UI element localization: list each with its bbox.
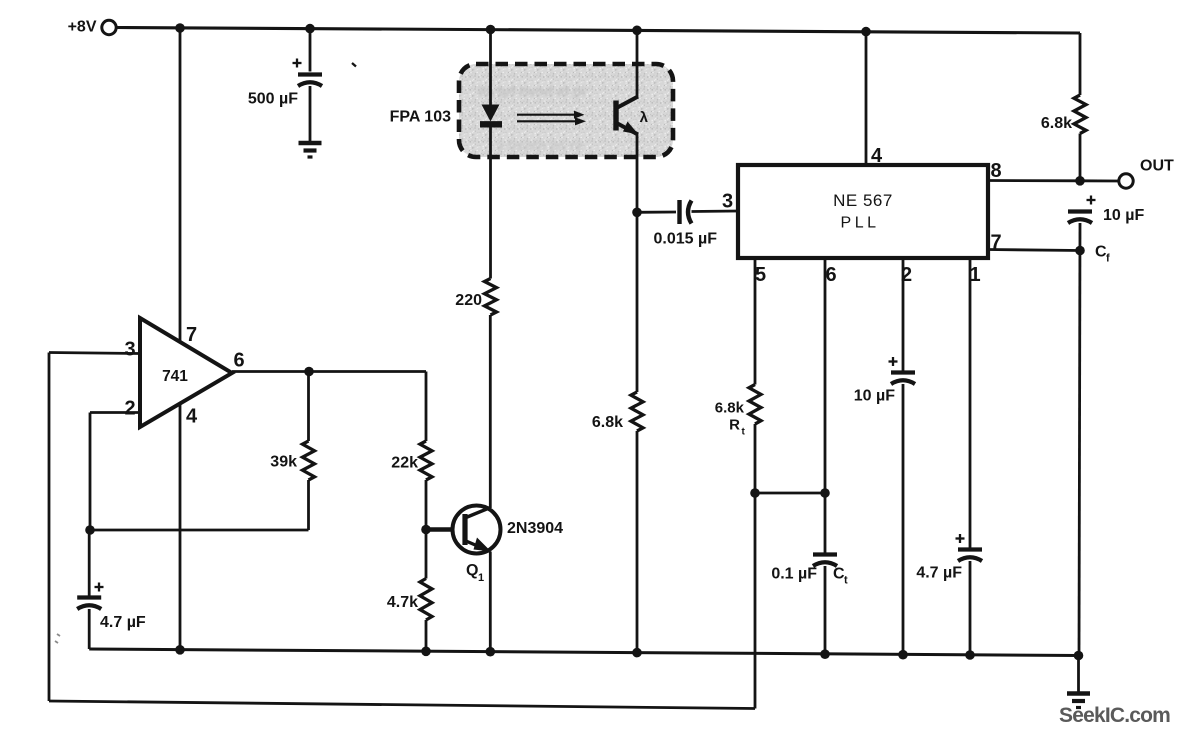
capacitor 500uF plus sign — [293, 62, 302, 64]
transistor Q1 emitter diagonal — [466, 541, 490, 552]
wire pin3 feedback column — [48, 353, 51, 702]
wire phototransistor collector up — [636, 30, 639, 97]
svg-text:PLL: PLL — [841, 215, 880, 232]
svg-text:t: t — [844, 575, 848, 587]
svg-text:0.015 µF: 0.015 µF — [654, 231, 718, 248]
wire NE567 pin 2 down — [902, 258, 905, 372]
wire 4.7uF pin1 to bottom rail — [969, 561, 972, 655]
op-amp U 741 triangle — [140, 318, 232, 427]
wire Ct to bottom rail — [824, 566, 827, 654]
svg-text:10 µF: 10 µF — [854, 388, 895, 405]
svg-text:2N3904: 2N3904 — [507, 520, 563, 537]
node 4.7uF / bottom rail — [965, 650, 975, 660]
wire Q1 base — [426, 527, 462, 532]
svg-text:lla tpf bsnd af pl: lla tpf bsnd af pl — [478, 83, 585, 99]
wire Q1 emitter down — [489, 552, 492, 652]
node 22k / 4.7k / Q1 base — [421, 525, 431, 535]
optocoupler phototransistor collector diagonal — [618, 97, 639, 108]
optocoupler phototransistor emitter arrow — [623, 122, 639, 135]
wire above 220 — [489, 213, 492, 279]
wire op-amp pin 2 input — [90, 411, 140, 414]
wire 22k to base node — [425, 480, 428, 530]
wire top +8V rail — [117, 28, 1081, 34]
svg-text:7: 7 — [186, 324, 197, 346]
svg-text:4: 4 — [871, 145, 883, 167]
transistor Q1 emitter arrow — [474, 538, 492, 552]
wire bottom feedback line — [49, 701, 755, 709]
svg-text:3: 3 — [124, 339, 135, 361]
wire 4.7k top — [425, 530, 428, 579]
capacitor C 10uF (Cf) plus — [1087, 199, 1096, 201]
svg-text:39k: 39k — [270, 454, 297, 471]
wire 4.7uF op-amp top — [88, 530, 91, 597]
resistor R 220 — [485, 279, 497, 316]
svg-text:0.1 µF: 0.1 µF — [771, 566, 817, 583]
capacitor C 0.015uF left plate — [677, 200, 681, 224]
node Rt / Ct link — [750, 488, 760, 498]
svg-text:a bsotn ps re: a bsotn ps re — [496, 137, 583, 153]
resistor R 6.8k (output pull-up) — [1074, 95, 1086, 134]
capacitor C 10uF (Cf) — [1068, 209, 1092, 213]
node top rail / LED column — [486, 25, 496, 35]
wire NE567 pin 4 to rail — [865, 32, 868, 165]
svg-text:2: 2 — [124, 398, 135, 420]
svg-text:6.8k: 6.8k — [1041, 115, 1072, 132]
wire 10uF pin2 to bottom rail — [902, 384, 905, 655]
wire 22k top corner — [425, 372, 428, 442]
svg-text:500 µF: 500 µF — [248, 91, 298, 108]
svg-text:220: 220 — [455, 292, 482, 309]
node pin7 / Cf — [1075, 246, 1085, 256]
svg-text:6: 6 — [233, 350, 244, 372]
svg-text:2: 2 — [901, 264, 912, 286]
svg-text:8: 8 — [990, 160, 1001, 182]
optocoupler light arrow 2 — [517, 120, 577, 122]
capacitor C 500uF — [298, 72, 322, 76]
wire 500uF top — [309, 29, 312, 72]
svg-text:Q: Q — [466, 562, 478, 579]
wire Rt down to feedback corner — [754, 424, 757, 709]
node 6.8k middle / bottom rail — [632, 648, 642, 658]
svg-text:4: 4 — [186, 406, 198, 428]
svg-text:1: 1 — [478, 572, 484, 584]
svg-text:7: 7 — [990, 232, 1001, 254]
scan speck bottom left — [55, 634, 60, 643]
optocoupler phototransistor base bar — [613, 101, 618, 131]
svg-text:6: 6 — [825, 264, 836, 286]
wire NE567 pin 8 — [988, 179, 1080, 182]
wire op-amp pin 3 input — [49, 353, 140, 354]
svg-text:4.7 µF: 4.7 µF — [916, 565, 962, 582]
svg-text:1: 1 — [969, 264, 980, 286]
wire NE567 pin 5 down — [754, 258, 757, 385]
svg-text:6.8k: 6.8k — [715, 400, 745, 417]
wire pin2 corner down — [89, 413, 92, 531]
wire 4.7uF op-amp bottom — [88, 609, 91, 649]
wire 39k top — [307, 372, 310, 442]
wire phototransistor emitter down — [636, 135, 639, 213]
optocoupler LED D1 cathode bar — [480, 121, 502, 127]
svg-text:λ: λ — [640, 109, 649, 126]
ground bottom right — [1067, 691, 1090, 696]
transistor Q1 collector diagonal — [466, 508, 490, 518]
wire bottom rail — [89, 649, 1078, 656]
wire op-amp V+ (pin 7) column — [179, 28, 182, 342]
wire to OUT terminal — [1080, 179, 1119, 182]
svg-text:OUT: OUT — [1140, 158, 1174, 175]
wire 500uF bottom — [309, 86, 312, 141]
wire 6.8k middle to bottom rail — [636, 431, 639, 653]
optocoupler LED D1 triangle — [482, 105, 500, 122]
resistor R 4.7k — [420, 579, 432, 621]
wire top rail corner down to 6.8k — [1079, 33, 1082, 95]
OUT terminal circle — [1119, 174, 1133, 188]
svg-text:f: f — [1106, 253, 1110, 265]
capacitor C 4.7uF (pin1) plus — [956, 537, 965, 539]
wire op-amp output — [232, 370, 426, 373]
svg-text:R: R — [729, 417, 740, 434]
node pin2 column / 4.7uF — [85, 525, 95, 535]
wire Rt node to Ct node — [755, 492, 825, 495]
svg-text:22k: 22k — [391, 455, 418, 472]
wire emitter node to 0.015uF — [637, 211, 676, 214]
node op-amp pin4 / bottom rail — [175, 645, 185, 655]
node top rail / op-amp V+ column — [175, 23, 185, 33]
transistor Q1 circle — [453, 506, 501, 554]
capacitor C 0.015uF right plate — [688, 201, 692, 224]
capacitor C 4.7uF (op-amp) — [77, 595, 101, 599]
capacitor C 4.7uF (op-amp) plus — [95, 586, 104, 588]
wire 6.8k to OUT node — [1079, 134, 1082, 181]
svg-text:4.7 µF: 4.7 µF — [100, 614, 146, 631]
wire 39k bottom — [307, 480, 310, 530]
node output / 39k — [304, 367, 314, 377]
scan speck near 500uF — [352, 63, 356, 67]
svg-text:4.7k: 4.7k — [387, 594, 418, 611]
wire NE567 pin 6 down — [824, 258, 827, 555]
power terminal +8V circle — [102, 20, 116, 34]
svg-text:10 µF: 10 µF — [1103, 207, 1144, 224]
transistor Q1 base bar — [462, 514, 467, 545]
IC U NE567 PLL box — [738, 165, 988, 258]
wire 4.7k to bottom rail — [425, 620, 428, 651]
svg-text:NE 567: NE 567 — [833, 191, 893, 210]
wire 0.015uF to pin 3 — [692, 210, 739, 213]
ground below 500uF — [299, 141, 322, 146]
optocoupler phototransistor emitter diagonal — [618, 124, 639, 135]
node bottom rail right corner — [1074, 651, 1084, 661]
wire LED cathode down — [489, 127, 492, 213]
node phototransistor emitter / coupling cap — [632, 208, 642, 218]
capacitor C 0.1uF (Ct) — [813, 552, 837, 556]
node top rail / phototransistor collector — [632, 26, 642, 36]
svg-text:FPA 103: FPA 103 — [390, 109, 451, 126]
node pin8 / OUT / 6.8k / 10uF — [1075, 176, 1085, 186]
resistor R 6.8k Rt — [749, 385, 761, 425]
wire LED anode (from top rail) — [489, 30, 492, 106]
wire NE567 pin 1 down — [969, 258, 972, 549]
svg-text:+8V: +8V — [68, 19, 97, 36]
resistor R 6.8k (phototransistor load) — [631, 392, 643, 431]
wire feedback mid horizontal — [90, 529, 309, 532]
wire emitter node to 6.8k — [636, 212, 639, 392]
node top rail / 500uF — [305, 24, 315, 34]
svg-text:6.8k: 6.8k — [592, 414, 623, 431]
wire NE567 pin 7 — [988, 250, 1080, 251]
resistor R 39k — [303, 441, 315, 480]
svg-text:3: 3 — [722, 191, 733, 213]
svg-text:5: 5 — [755, 264, 766, 286]
resistor R 22k — [420, 441, 432, 480]
capacitor C 10uF (pin2) plus — [889, 360, 898, 362]
wire to bottom-right ground — [1077, 656, 1080, 692]
node 4.7k / bottom rail — [421, 647, 431, 657]
node 10uF / bottom rail — [898, 650, 908, 660]
optocoupler light arrow 1 — [517, 114, 576, 116]
node Ct / bottom rail — [820, 649, 830, 659]
wire op-amp V- (pin 4) column — [179, 404, 182, 650]
node top rail / NE567 pin 4 — [861, 27, 871, 37]
svg-text:741: 741 — [162, 368, 188, 385]
node Q1 emitter / bottom rail — [486, 647, 496, 657]
wire 220 to Q1 collector — [489, 315, 492, 508]
wire Cf node down right column — [1079, 223, 1080, 656]
capacitor C 10uF (pin2) — [891, 370, 915, 374]
svg-text:SeekIC.com: SeekIC.com — [1059, 704, 1170, 727]
capacitor C 4.7uF (pin1) — [958, 547, 982, 551]
node pin6 / Ct link — [820, 488, 830, 498]
